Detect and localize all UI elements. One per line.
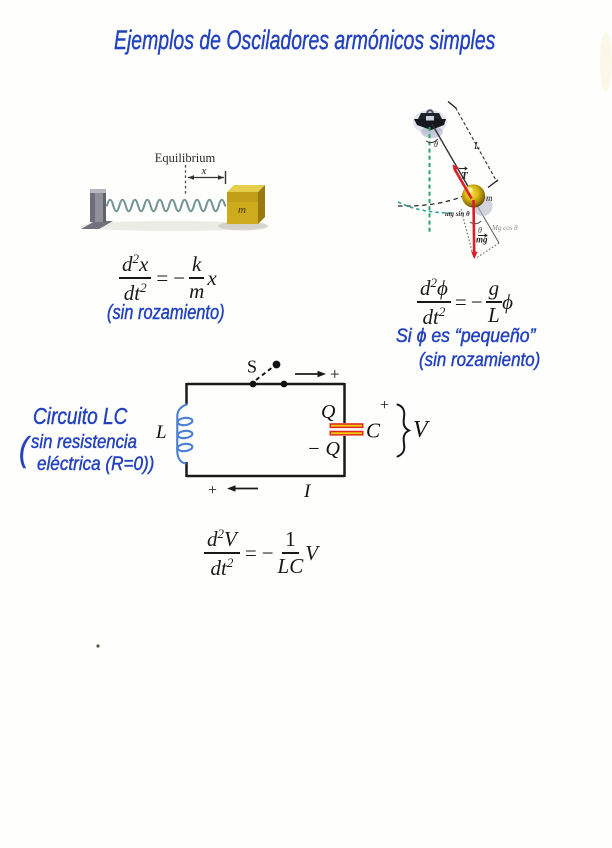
component lines below bob	[475, 202, 499, 243]
wire top	[187, 383, 345, 386]
svg-text:I: I	[303, 481, 312, 502]
bob	[462, 184, 485, 207]
x dimension arrow	[188, 177, 224, 179]
inductor L1 coil	[177, 405, 186, 464]
equation 1: d2x/dt2 = -(k/m) x	[119, 252, 217, 304]
handwriting: sin rozamiento 1	[107, 302, 225, 325]
svg-text:x: x	[201, 165, 207, 177]
floor shadow	[80, 221, 264, 231]
current direction arrow bottom	[233, 488, 258, 490]
tension vector T	[454, 168, 472, 199]
svg-text:+: +	[330, 365, 340, 384]
dashed swing arc black	[398, 195, 466, 206]
wire right upper segment	[343, 383, 346, 423]
capacitor C1 plate top	[330, 423, 364, 428]
L dimension line	[456, 108, 498, 183]
handwriting: circuito LC	[33, 403, 127, 430]
weight vector mg	[472, 200, 475, 252]
switch S lever ball	[273, 361, 281, 369]
theta arc near pivot	[426, 139, 438, 143]
svg-text:θ: θ	[434, 140, 438, 149]
bob shadow	[473, 196, 493, 216]
string	[432, 124, 473, 195]
wire right lower segment	[343, 436, 346, 477]
brace	[398, 405, 410, 457]
title handwriting	[114, 25, 495, 56]
svg-text:m: m	[238, 204, 246, 216]
svg-text:V: V	[413, 417, 430, 443]
svg-text:+: +	[208, 482, 217, 499]
current direction arrow top	[295, 373, 319, 375]
switch S lever (open, dashed)	[256, 368, 272, 380]
spring	[107, 200, 225, 212]
wire left lower segment	[185, 462, 188, 477]
mass cube m	[227, 185, 265, 192]
vertical dashed reference line	[429, 127, 431, 233]
svg-text:L: L	[473, 140, 480, 152]
faint scan smudge right edge	[600, 32, 612, 92]
svg-text:mg sin θ: mg sin θ	[445, 210, 470, 218]
equation 2: d2phi/dt2 = -(g/L) phi	[417, 276, 513, 328]
switch S contact node right	[281, 381, 288, 388]
svg-text:Equilibrium: Equilibrium	[155, 151, 216, 165]
equilibrium dashed line	[185, 165, 187, 196]
svg-text:+: +	[380, 397, 389, 414]
svg-text:C: C	[366, 419, 381, 443]
svg-text:Q: Q	[321, 401, 336, 423]
svg-text:− Q: − Q	[307, 438, 340, 460]
svg-text:Mg cos θ: Mg cos θ	[491, 224, 518, 232]
svg-text:m: m	[486, 193, 493, 203]
equation 3: d2V/dt2 = -(1/LC) V	[204, 527, 318, 579]
svg-text:S: S	[247, 357, 257, 377]
stray ink dot	[96, 644, 99, 647]
capacitor C1 plate bottom	[330, 431, 364, 436]
svg-text:T: T	[461, 170, 469, 182]
wire bottom	[187, 475, 345, 478]
wire left upper segment	[185, 383, 188, 405]
pivot halo	[413, 110, 447, 134]
switch S contact node left	[250, 381, 257, 388]
dashed arc teal	[398, 202, 452, 213]
handwriting: si phi es pequeno	[396, 326, 536, 348]
svg-text:L: L	[155, 422, 167, 443]
pivot clamp	[426, 109, 434, 117]
wall anchor	[81, 221, 113, 229]
